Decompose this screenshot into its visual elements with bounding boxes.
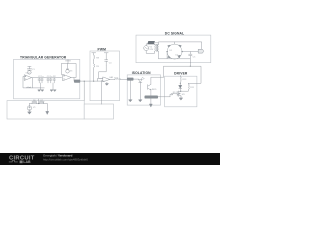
net label badge MAINS (147, 41, 158, 44)
capacitor C3b (50, 78, 52, 83)
node right vertex (182, 51, 183, 52)
diode D2 top-left (168, 45, 171, 47)
wire DC output to supply rail (189, 63, 191, 67)
op-amp OA1 (24, 75, 31, 81)
resistor RF feedback (27, 87, 31, 88)
ground CMP1 (105, 82, 108, 85)
wire transformer secondary top rail (158, 42, 201, 49)
capacitor C4 (105, 60, 108, 66)
capacitor C1 (27, 69, 31, 71)
node TRI branch (84, 81, 85, 82)
wire gate drive to driver (158, 96, 170, 98)
wire Q1 collector (151, 77, 164, 84)
CircuitLab logo LAB square (20, 161, 23, 164)
node bar top of PWM (92, 53, 96, 55)
svg-text:TRIANGULAR GENERATOR: TRIANGULAR GENERATOR (20, 55, 67, 59)
ground LED (139, 100, 142, 102)
resistor R6 (32, 102, 37, 104)
node rail corner (180, 83, 181, 84)
resistor R11 branch (180, 83, 189, 91)
transformer T1 secondary (157, 45, 160, 52)
node gate circle (171, 93, 173, 95)
svg-text:ISOLATION: ISOLATION (132, 71, 151, 75)
wire R9 down to comparator input (94, 69, 103, 81)
svg-text:C2 1u: C2 1u (38, 76, 44, 78)
svg-text:DC SIGNAL: DC SIGNAL (165, 31, 184, 35)
wire LED cathode down (139, 82, 141, 100)
wire C4 down (99, 65, 107, 78)
annotation box bottom reference A (7, 101, 84, 119)
net label badge GATE (145, 96, 159, 99)
tiny value labels (26, 47, 197, 109)
svg-text:24V: 24V (150, 49, 154, 51)
wire CMP1 output (110, 79, 115, 81)
wire C3 down (52, 83, 54, 89)
wire OA2 loop rectangle (61, 64, 76, 78)
node filter tap (190, 66, 191, 67)
node divider tap (38, 103, 39, 104)
ground badge pulldown (129, 100, 132, 102)
capacitor C5 (189, 52, 192, 63)
svg-text:DRIVER: DRIVER (174, 71, 188, 75)
svg-text:LAB: LAB (23, 160, 31, 164)
annotation box DC SIGNAL (136, 35, 211, 63)
transformer T1 core (156, 45, 157, 52)
wire bridge right to filter (182, 51, 198, 53)
wire OA2 output to badge (71, 78, 74, 82)
wire C2 down (40, 83, 42, 89)
wire gate jog from isolation (170, 94, 171, 97)
annotation box bottom B (84, 104, 113, 119)
power flag OA2 (65, 60, 70, 64)
op-amp OA2 (63, 74, 71, 80)
wire badge pulldown (129, 81, 131, 100)
capacitor C2b (41, 78, 43, 83)
svg-text:PWM: PWM (98, 47, 107, 51)
annotation box PWM (90, 51, 120, 101)
wire reference divider horizontal (29, 103, 47, 105)
resistor R7 (39, 102, 44, 104)
wire R8 R9 junction (93, 61, 95, 64)
CircuitLab logo LAB trace line (9, 161, 18, 162)
bridge rectifier circle (167, 44, 182, 59)
LED D1 (139, 79, 142, 82)
wire feedback loop OA1 (23, 76, 33, 88)
voltage source V1 (28, 104, 30, 106)
diode D6 driver (179, 85, 182, 88)
wire OA1 output bus (31, 77, 61, 79)
voltage source V2 AC (144, 46, 149, 51)
ground M1 source (179, 97, 182, 100)
footer bar (0, 153, 220, 165)
net label badge TRI (74, 80, 80, 83)
node bar top of C4 (104, 53, 108, 60)
wire Q1 emitter (150, 90, 152, 104)
source VREF in loop (67, 64, 69, 70)
resistor R10 PWM output (115, 79, 128, 80)
net label badge PWM in isolation (127, 78, 139, 81)
transformer T1 primary (154, 45, 157, 52)
wire badge to PWM (80, 80, 105, 82)
wire bridge top stub (174, 42, 176, 44)
bubble node OA1 (28, 71, 32, 75)
resistor R9 (94, 63, 95, 69)
diode D3 top-right (179, 45, 182, 47)
wire V2 to transformer (146, 44, 154, 53)
capacitor C3c (53, 78, 55, 83)
wire branch down to reference (83, 81, 85, 101)
junction node dots (38, 66, 191, 105)
wire supply rail (164, 66, 202, 83)
arrow terminal Q1 emitter (150, 104, 153, 107)
LED arrows (141, 77, 144, 79)
node left vertex (167, 51, 168, 52)
node VCC top bar OA1 (28, 67, 31, 69)
diode D5 bottom-right (178, 55, 181, 58)
wire loop bottom extension (33, 87, 45, 89)
wire R13 to diode (179, 83, 181, 85)
wire CMP1 plus input from reference (101, 81, 103, 105)
wire divider right leg (46, 104, 48, 112)
svg-text:4N35: 4N35 (152, 89, 158, 91)
phototransistor Q1 (148, 84, 151, 90)
diode D4 bottom-left (168, 56, 171, 58)
resistor R13 driver top (180, 75, 181, 82)
annotation box DRIVER (165, 76, 197, 107)
op-amp CMP1 comparator (103, 77, 110, 82)
output flag VOUT (198, 49, 204, 53)
wire junction reference divider to PWM (38, 99, 40, 104)
node PWM minus (93, 81, 94, 82)
arrow terminal divider right leg (46, 111, 49, 114)
MOSFET M1 (177, 91, 181, 97)
svg-text:http://circuitlab.com/cjw4883z: http://circuitlab.com/cjw4883zkbbt6 (43, 158, 88, 162)
capacitor C2a (38, 78, 40, 83)
capacitor C3a (47, 78, 49, 83)
annotation box TRIANGULAR GENERATOR (14, 59, 80, 98)
resistor R12 gate (173, 92, 179, 95)
ground C3 pair (50, 90, 56, 92)
resistor R8 (94, 54, 95, 60)
ground C2 pair (38, 90, 44, 92)
wire diode to mosfet (179, 88, 181, 90)
wire transformer secondary bottom rail (158, 51, 190, 59)
ground V1 (28, 110, 32, 114)
annotation box ISOLATION (127, 75, 160, 105)
